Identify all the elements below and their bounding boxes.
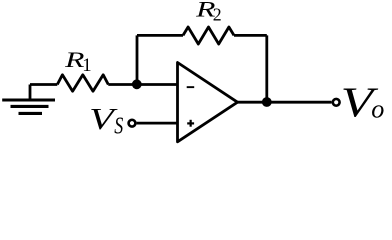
ground [2,85,55,114]
terminal Vs open circle [129,120,136,127]
resistor R2 [183,27,234,44]
wire right corner down to output node [265,35,268,102]
node A junction dot [132,79,142,89]
svg-text:2: 2 [213,4,222,24]
op-amp U1 [178,63,238,142]
wire top to R2 [137,34,183,37]
wire op-amp output [238,101,332,104]
resistor R1 [57,75,108,91]
svg-text:1: 1 [82,55,91,76]
wire Vs to op-amp + input [137,122,178,125]
svg-text:S: S [114,112,123,139]
op-amp minus sign [187,86,195,88]
output node junction dot [262,97,272,107]
wire node A up [136,35,139,84]
svg-text:o: o [371,95,384,124]
wire R1 to op-amp inverting input [108,83,177,86]
wire R2 to right corner [234,34,267,37]
terminal Vo open circle [333,99,340,106]
op-amp plus sign [187,120,194,127]
wire ground to R1 [30,83,57,86]
